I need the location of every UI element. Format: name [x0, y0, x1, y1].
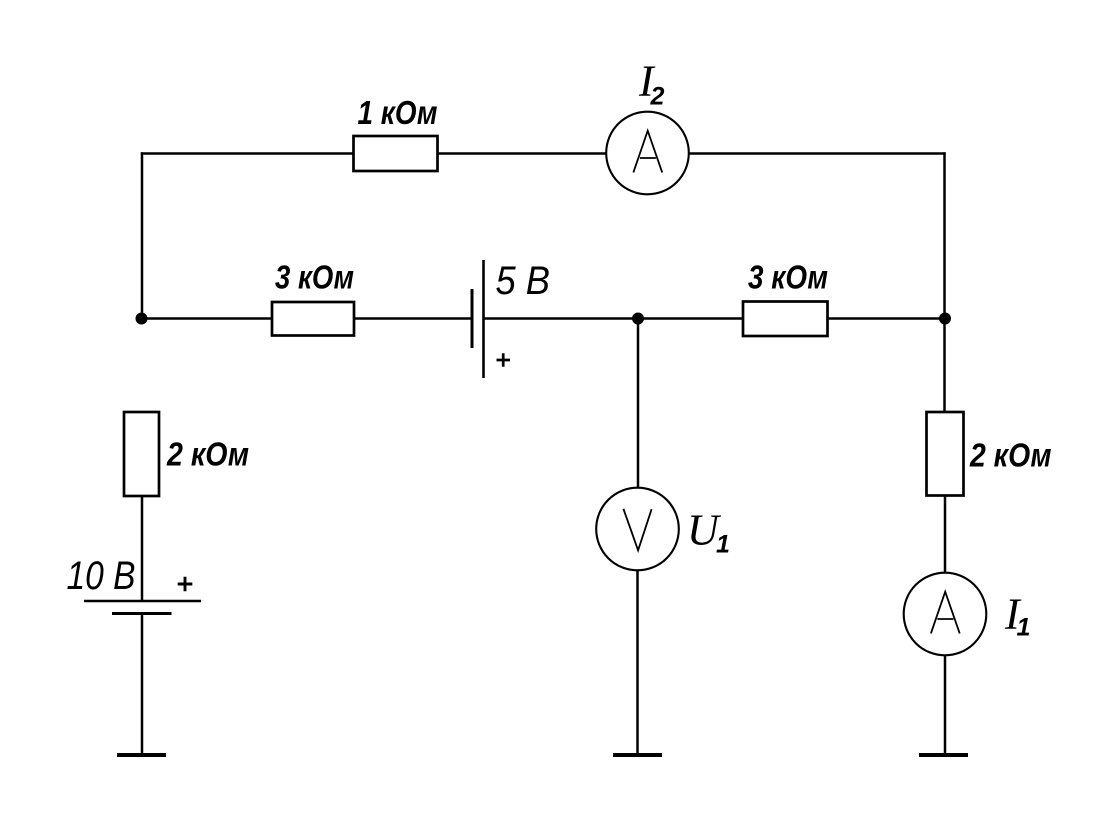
battery B2 plus sign — [497, 353, 511, 366]
wire: left rail vertical (top wire to middle node) — [141, 152, 144, 320]
svg-text:3 кОм: 3 кОм — [748, 259, 828, 296]
ammeter I2 letter A — [633, 131, 662, 173]
resistor R1 1 kOm (top) — [354, 136, 438, 171]
node C (right middle junction) — [939, 313, 951, 325]
wire: voltmeter U1 to ground — [636, 570, 639, 755]
svg-text:1: 1 — [1017, 614, 1031, 642]
svg-text:5 В: 5 В — [496, 259, 551, 303]
svg-text:2 кОм: 2 кОм — [166, 435, 249, 472]
wire: resistor R2 to battery B2 — [354, 317, 472, 320]
wire: battery B2 to middle node — [484, 317, 639, 320]
wire: middle node down to voltmeter U1 — [637, 319, 640, 489]
wire: resistor R3 to right node — [828, 317, 945, 320]
battery B1 10 V long plate — [84, 600, 201, 603]
wire: resistor R1 to ammeter I2 — [438, 152, 607, 155]
wire: right rail vertical (top wire down to resistor R5) — [943, 152, 946, 412]
svg-text:10 В: 10 В — [67, 554, 136, 598]
wire: middle node to resistor R3 — [638, 317, 743, 320]
svg-text:2 кОм: 2 кОм — [969, 437, 1051, 474]
svg-text:1: 1 — [716, 531, 730, 559]
wire: battery B1 to ground — [141, 614, 144, 756]
wire: resistor R5 to ammeter I1 — [944, 496, 947, 574]
resistor R4 2 kOm (left branch) — [124, 412, 159, 496]
resistor R3 3 kOm (middle right) — [743, 302, 828, 337]
battery B2 5 V long plate — [482, 260, 485, 378]
svg-text:1 кОм: 1 кОм — [358, 94, 438, 131]
ground (left) — [117, 753, 166, 757]
ground (middle) — [613, 753, 662, 757]
node A (left middle junction) — [136, 313, 148, 325]
ammeter I1 letter A — [931, 592, 960, 634]
resistor R2 3 kOm (middle left) — [272, 302, 354, 336]
wire: ammeter I2 to right rail — [689, 152, 946, 155]
battery B1 10 V short plate — [112, 612, 172, 615]
svg-text:3 кОм: 3 кОм — [275, 259, 354, 296]
voltmeter U1 circle — [596, 488, 679, 571]
ammeter I1 circle — [904, 573, 987, 656]
wire: middle rail from left node to resistor R2 — [142, 317, 272, 320]
wire: ammeter I1 to ground — [944, 655, 947, 755]
resistor R5 2 kOm (right branch) — [927, 412, 964, 496]
svg-text:2: 2 — [650, 82, 665, 110]
voltmeter U1 letter V — [623, 509, 651, 551]
node B (middle junction) — [632, 313, 644, 325]
ammeter I2 circle — [606, 112, 689, 195]
wire: top rail left segment — [141, 152, 354, 155]
wire: resistor R4 to battery B1 — [141, 496, 144, 601]
ground (right) — [919, 753, 968, 757]
battery B1 plus sign — [178, 577, 193, 592]
battery B2 5 V short plate — [471, 289, 474, 348]
